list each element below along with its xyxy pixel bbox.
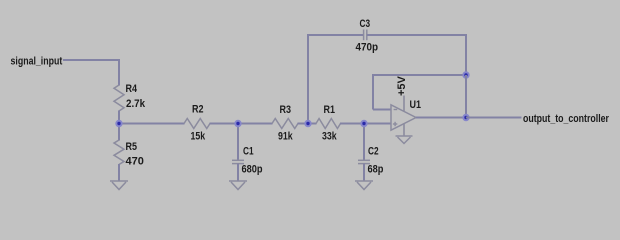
- svg-text:C3: C3: [360, 18, 371, 30]
- svg-text:output_to_controller: output_to_controller: [523, 113, 609, 125]
- label R4: [126, 83, 138, 95]
- svg-text:R5: R5: [126, 141, 138, 153]
- wire feedback top to output riser: [372, 74, 466, 76]
- svg-text:91k: 91k: [278, 130, 293, 142]
- op-amp V- pin: [403, 124, 405, 136]
- wire R1 to node D: [340, 123, 364, 125]
- wire R5 to ground: [118, 164, 120, 181]
- svg-text:R4: R4: [126, 83, 138, 95]
- svg-text:R1: R1: [324, 104, 336, 116]
- svg-text:U1: U1: [410, 99, 422, 111]
- wire C3 rail right: [367, 34, 466, 36]
- value 2.7k: [126, 99, 145, 111]
- label R5: [126, 141, 138, 153]
- wire C1 to ground: [237, 164, 239, 181]
- svg-text:470p: 470p: [356, 42, 379, 54]
- op-amp U1: [391, 105, 416, 130]
- value 470: [126, 155, 144, 167]
- wire signal_input to R4: [63, 60, 119, 86]
- value 680p: [242, 164, 263, 176]
- net label signal_input: [11, 55, 63, 67]
- feedback junction dot: [463, 72, 468, 77]
- value 470p: [356, 42, 379, 54]
- svg-text:+5V: +5V: [396, 75, 408, 96]
- svg-text:2.7k: 2.7k: [126, 99, 145, 111]
- wire R4 to node A: [118, 111, 120, 124]
- value 33k: [322, 130, 337, 142]
- value 91k: [278, 130, 293, 142]
- wire R2 to node B: [210, 123, 239, 125]
- wire node A to R2: [119, 123, 185, 125]
- svg-text:C1: C1: [243, 145, 254, 157]
- svg-text:signal_input: signal_input: [11, 55, 63, 67]
- label C1: [243, 145, 254, 157]
- capacitor C3: [364, 30, 367, 41]
- wire node D to op-amp noninverting input: [364, 123, 391, 125]
- node B junction dot: [235, 121, 240, 126]
- svg-text:33k: 33k: [322, 130, 337, 142]
- label C3: [360, 18, 371, 30]
- node A junction dot: [116, 121, 121, 126]
- resistor R3: [272, 119, 298, 129]
- svg-text:R3: R3: [280, 104, 292, 116]
- wire node B to R3: [238, 123, 273, 125]
- ground below op-amp: [396, 136, 413, 144]
- ground below C1: [229, 181, 247, 190]
- wire inverting input stub: [373, 109, 391, 111]
- ground below R5: [110, 181, 128, 190]
- ground below C2: [355, 181, 373, 190]
- net label output_to_controller: [523, 113, 609, 125]
- value 68p: [368, 164, 384, 176]
- svg-text:680p: 680p: [242, 164, 263, 176]
- wire C2 to ground: [363, 164, 365, 181]
- node D junction dot: [361, 121, 366, 126]
- label C2: [368, 145, 379, 157]
- wire node C riser to C3 rail: [307, 34, 309, 124]
- label R3: [280, 104, 292, 116]
- wire output to label: [466, 117, 522, 119]
- resistor R2: [184, 119, 210, 129]
- svg-text:R2: R2: [192, 104, 204, 116]
- wire output riser: [465, 75, 467, 118]
- wire op-amp output: [416, 117, 466, 119]
- label U1: [410, 99, 422, 111]
- capacitor C1: [232, 160, 244, 163]
- wire node B to C1: [237, 124, 239, 161]
- value 15k: [191, 130, 206, 142]
- wire C3 rail left: [307, 34, 364, 36]
- wire node A to R5: [118, 124, 120, 141]
- wire node D to C2: [363, 124, 365, 161]
- wire right riser C3 to feedback node: [465, 34, 467, 75]
- svg-text:68p: 68p: [368, 164, 384, 176]
- resistor R4: [114, 85, 124, 111]
- output junction dot: [463, 115, 468, 120]
- wire feedback riser: [372, 74, 374, 110]
- svg-text:C2: C2: [368, 145, 379, 157]
- label R2: [192, 104, 204, 116]
- wire R3 to node C: [298, 123, 317, 125]
- label +5V: [396, 75, 408, 96]
- label R1: [324, 104, 336, 116]
- capacitor C2: [358, 160, 370, 163]
- svg-text:15k: 15k: [191, 130, 206, 142]
- resistor R1: [316, 119, 341, 129]
- node C junction dot: [305, 121, 310, 126]
- resistor R5: [114, 140, 124, 165]
- svg-text:470: 470: [126, 155, 144, 167]
- power pin +5V: [403, 96, 405, 112]
